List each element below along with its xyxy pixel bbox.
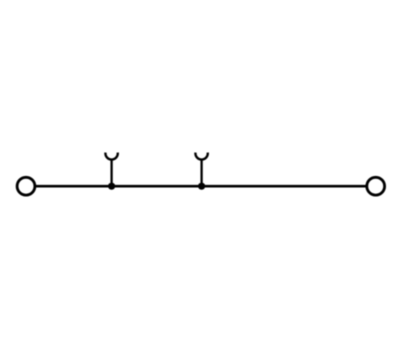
bridge tap 2 stem: [200, 161, 202, 187]
bridge tap 1 stem: [110, 161, 112, 187]
bridge tap 2 cup: [195, 153, 207, 160]
terminal circle left: [17, 177, 35, 195]
wire: [36, 185, 367, 188]
junction dot 2: [198, 183, 205, 190]
terminal circle right: [367, 177, 385, 195]
junction dot 1: [108, 183, 115, 190]
bridge tap 1 cup: [105, 153, 117, 160]
